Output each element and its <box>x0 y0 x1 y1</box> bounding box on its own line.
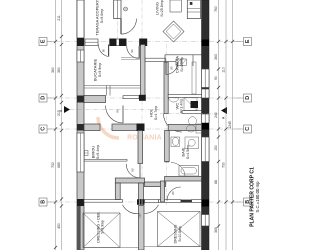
bottom edge line <box>84 247 139 249</box>
title text <box>250 167 260 227</box>
column E3 <box>119 39 126 47</box>
svg-text:80: 80 <box>171 191 175 195</box>
right wall window wc2 <box>202 114 210 123</box>
living table diamond <box>163 21 184 42</box>
svg-text:D: D <box>41 96 47 100</box>
svg-text:685: 685 <box>57 162 61 168</box>
svg-text:1245: 1245 <box>228 121 232 129</box>
room label birou <box>91 145 101 159</box>
right dim ticks <box>217 40 234 228</box>
svg-text:S=4.5mp: S=4.5mp <box>186 145 190 159</box>
grid bubble C right <box>244 125 252 133</box>
wc washer <box>184 98 197 111</box>
birou radiator <box>85 151 89 156</box>
room label baie <box>181 145 191 159</box>
watermark arc <box>98 117 119 138</box>
svg-text:760: 760 <box>214 6 218 12</box>
wall baie left <box>165 131 170 162</box>
vertical axis terasa/living wall <box>117 0 119 45</box>
svg-text:211: 211 <box>57 15 61 21</box>
section marker A left <box>64 106 70 113</box>
svg-text:730: 730 <box>51 162 55 168</box>
wall C right (wc-baie) <box>168 125 201 131</box>
door living-terasa arc <box>121 19 137 34</box>
wall hol top thin <box>145 58 165 61</box>
room label terasa <box>95 0 105 36</box>
left wall dark lower <box>77 206 80 250</box>
svg-text:90: 90 <box>102 49 106 53</box>
wall C seg2 <box>112 124 138 131</box>
wall hol right <box>164 62 168 114</box>
svg-text:BAIE: BAIE <box>181 147 186 156</box>
right wall column B <box>202 200 210 207</box>
column B center <box>137 199 145 205</box>
svg-text:730: 730 <box>222 162 226 168</box>
wc sink <box>169 98 180 103</box>
room label living <box>155 0 165 16</box>
svg-text:S=4.7mp: S=4.7mp <box>154 106 158 120</box>
door terasa-bucatarie arc <box>98 45 108 57</box>
vertical axis hol wall <box>166 44 168 205</box>
svg-text:80: 80 <box>170 66 174 70</box>
right wall window dormitor <box>202 215 210 227</box>
baie toilet tank <box>196 124 202 133</box>
svg-text:240: 240 <box>214 112 218 118</box>
wc boiler <box>191 101 199 108</box>
right dim line 3 <box>232 0 234 250</box>
camara shelf <box>192 62 196 94</box>
wall bottom center <box>139 206 145 250</box>
symbol top <box>124 7 128 11</box>
grid bubble D left <box>39 94 47 102</box>
right wall column E <box>202 40 210 47</box>
wall camara bottom <box>168 95 201 98</box>
dressing wall left stub <box>115 183 120 200</box>
room label dormitor <box>174 224 183 243</box>
wall E window 1 <box>85 39 98 46</box>
grid bubble E left <box>39 38 47 46</box>
svg-text:LIVING: LIVING <box>155 2 160 15</box>
baie washer <box>185 137 199 149</box>
right wall window camara <box>202 69 210 88</box>
room label wc <box>175 99 184 113</box>
column C <box>137 124 145 132</box>
grid line C <box>47 128 244 130</box>
svg-text:215: 215 <box>57 110 61 116</box>
svg-text:HOL: HOL <box>149 108 154 117</box>
svg-text:90: 90 <box>130 49 134 53</box>
kitchen counter <box>84 85 141 87</box>
door camara arc <box>166 62 178 75</box>
door birou arc <box>126 164 140 178</box>
right dim line 2 <box>225 0 227 250</box>
svg-text:CAMARA: CAMARA <box>175 56 180 73</box>
door dormitor leaf <box>181 200 192 203</box>
svg-text:TERASA ACOPERITA: TERASA ACOPERITA <box>95 0 100 36</box>
wall D left <box>84 96 106 103</box>
grid line B <box>47 201 244 203</box>
door dormitor arc <box>167 187 181 201</box>
wall E window 2 <box>116 39 119 46</box>
right dim line 1 <box>218 0 220 250</box>
left dim ticks <box>54 35 63 249</box>
wall B seg1 thin <box>84 200 123 203</box>
grid bubble C left <box>39 125 47 133</box>
door bucatarie arc <box>106 106 124 124</box>
wardrobe dressing <box>83 213 120 248</box>
wall D mid thin <box>123 96 139 99</box>
room label hol <box>149 106 159 120</box>
svg-text:E: E <box>41 39 47 43</box>
baie sink <box>171 137 180 147</box>
left wall junction E <box>77 38 84 46</box>
dressing wall right <box>145 182 166 187</box>
room label camara <box>175 56 185 73</box>
svg-text:D: D <box>245 96 251 100</box>
grid bubble D right <box>244 94 252 102</box>
svg-text:365: 365 <box>214 227 218 233</box>
column E2 <box>109 39 116 47</box>
svg-text:88: 88 <box>214 180 218 184</box>
section line A-A <box>70 109 160 111</box>
left wall junction D <box>77 96 84 103</box>
grid line E <box>47 41 244 43</box>
double door left arc <box>123 205 139 214</box>
door wc arc <box>164 114 183 133</box>
svg-text:S=25.8mp: S=25.8mp <box>160 0 164 16</box>
wall wc bottom <box>182 111 202 114</box>
svg-text:S.C.=180.00 mp: S.C.=180.00 mp <box>255 181 260 213</box>
left wall window (bucatarie) <box>77 50 84 62</box>
right dim numbers <box>214 6 232 233</box>
wall C seg1 <box>84 124 100 131</box>
column D <box>139 95 146 101</box>
wc toilet bowl <box>189 117 197 126</box>
left dim numbers <box>51 15 61 229</box>
right wall window baie <box>202 137 210 162</box>
grid bubble B left <box>39 198 47 206</box>
left dim line 2 <box>61 0 63 250</box>
door baie opening <box>171 163 185 177</box>
svg-text:B: B <box>41 200 47 204</box>
svg-text:360: 360 <box>57 67 61 73</box>
vertical axis left wall <box>80 0 82 250</box>
svg-text:80: 80 <box>116 109 120 113</box>
left wall junction C <box>77 124 84 131</box>
left wall window birou <box>77 133 84 172</box>
svg-text:90: 90 <box>214 76 218 80</box>
vertical axis right wall <box>204 0 206 250</box>
baie toilet bowl <box>187 125 196 132</box>
left exterior wall <box>77 0 84 250</box>
svg-text:S=9.4mp: S=9.4mp <box>96 145 100 159</box>
living table top <box>170 0 181 12</box>
grid line D <box>47 97 244 99</box>
camara threshold hatch <box>176 59 181 65</box>
svg-text:S=4.3mp: S=4.3mp <box>180 57 184 71</box>
svg-text:C: C <box>245 127 251 131</box>
svg-text:BUCATARIE: BUCATARIE <box>93 59 98 82</box>
grid bubble B right <box>244 198 252 206</box>
living shelf unit <box>187 0 200 19</box>
terasa railing segment <box>77 0 84 38</box>
svg-text:S=9.9mp: S=9.9mp <box>98 63 102 77</box>
svg-text:150: 150 <box>214 145 218 151</box>
dressing wall center stub <box>139 183 144 200</box>
door bucatarie-living arc <box>127 46 140 59</box>
right exterior wall <box>202 0 210 250</box>
room label dressing <box>97 211 105 242</box>
wall nook left of dormitor door <box>161 181 165 202</box>
right wall column C <box>202 123 210 130</box>
wall birou bottom thin <box>84 159 127 161</box>
svg-text:S=10.8mp: S=10.8mp <box>178 226 182 242</box>
svg-text:DRESSING: DRESSING <box>174 224 178 243</box>
wardrobe dormitor <box>158 212 201 247</box>
wall B seg3 thin <box>192 200 202 203</box>
svg-text:S=1.4mp: S=1.4mp <box>180 99 184 113</box>
wall bucatarie-hol <box>141 45 146 96</box>
svg-text:ROMANIA: ROMANIA <box>127 135 162 142</box>
door width numbers <box>102 49 176 218</box>
svg-text:450: 450 <box>57 223 61 229</box>
left wall junction B <box>77 199 84 206</box>
kitchen cabinet top <box>121 57 141 59</box>
wc toilet tank <box>189 126 197 130</box>
wall birou right <box>138 131 143 164</box>
vertical axis center wall <box>141 0 143 250</box>
baie bathtub <box>179 166 199 177</box>
svg-text:E: E <box>245 39 251 43</box>
svg-text:363: 363 <box>214 54 218 60</box>
svg-text:360: 360 <box>51 67 55 73</box>
svg-text:BIROU: BIROU <box>91 146 96 159</box>
double door right arc <box>144 205 158 214</box>
grid bubble E right <box>244 38 252 46</box>
room label bucatarie <box>93 59 103 82</box>
left dim line 1 <box>55 0 57 250</box>
dressing wall top <box>115 178 144 183</box>
column E4 <box>139 39 147 47</box>
svg-text:160: 160 <box>138 213 142 218</box>
svg-text:90: 90 <box>131 168 135 172</box>
wall B seg2 thin <box>159 200 181 203</box>
section marker A right <box>221 107 227 114</box>
svg-text:S=9.0mp: S=9.0mp <box>100 9 104 23</box>
svg-text:110: 110 <box>222 67 226 73</box>
right wall window wc <box>202 89 210 98</box>
svg-text:S=3.9mp: S=3.9mp <box>101 220 105 234</box>
wall B seg mid thin <box>145 200 159 203</box>
wall camara top thin <box>165 54 202 56</box>
svg-text:C: C <box>41 127 47 131</box>
living-terasa window wall <box>114 0 121 19</box>
wall baie bottom <box>165 177 202 182</box>
